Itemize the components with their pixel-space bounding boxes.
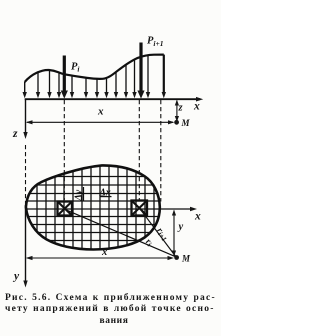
radius line r_i to M [64,209,176,257]
ellipse (foundation outline) [26,165,160,249]
y dimension line at M (plan) [172,210,176,257]
left edge of load diagram [24,82,26,93]
svg-text:y: y [177,222,184,233]
thin load arrow 9 [114,72,118,98]
label delta-y (rotated) [74,187,85,202]
dashed projection: right edge [160,100,162,202]
label r_i+1 (rotated along line) [154,226,171,243]
load curve (distributed pressure envelope) [25,55,164,82]
loaded cell i (crossed square) [58,202,73,216]
caption line 3 [100,316,129,326]
thin load arrow 5 [70,76,74,98]
svg-text:x: x [101,247,107,258]
svg-text:y: y [12,271,20,283]
thin load arrow 1 (left edge) [23,92,27,98]
thin load arrow 6 [84,78,88,98]
bold force arrow P_i+1 [137,43,144,99]
svg-text:ri+1: ri+1 [154,226,171,243]
svg-text:M: M [181,118,191,128]
thin load arrow 12 [146,55,150,98]
svg-text:x: x [97,106,104,118]
thin load arrow 3 [47,70,51,98]
thin load arrow 13 (right edge) [162,92,166,98]
svg-text:Pi+1: Pi+1 [147,35,164,47]
svg-text:z: z [12,128,18,140]
thin load arrow 8 [104,79,108,99]
z-axis (vertical, down from origin) [23,99,27,139]
y-axis of plan [23,205,27,288]
ground line / x-axis of section [25,97,204,102]
dashed projection: under P_i [63,100,65,200]
svg-text:Δy: Δy [74,189,85,201]
thin load arrow 11 [132,60,136,98]
point M (section) [174,120,179,125]
label r_i (rotated along line) [143,236,154,248]
foundation plan grid (clipped to ellipse) [26,164,160,251]
x-axis of plan (through ellipse centre) [26,207,197,212]
thin load arrow 4 [57,73,61,98]
radius line r_i+1 to M [140,208,177,257]
thin load arrow 7 [95,79,99,98]
bold force arrow P_i [61,56,68,99]
caption line 2 [5,304,215,314]
x dimension line (section) [26,120,175,124]
thin load arrow 2 [36,71,40,98]
svg-text:Pi: Pi [71,62,80,74]
svg-text:x: x [193,101,200,113]
right edge of load diagram [163,55,165,93]
svg-text:M: M [181,254,191,264]
svg-text:x: x [194,211,201,223]
dashed projection: left edge [25,145,27,204]
z dimension line at M [175,100,179,122]
caption line 1 [5,293,216,303]
svg-text:z: z [178,103,184,114]
loaded cell i+1 (crossed square) [132,201,148,216]
point M (plan) [174,255,179,260]
thin load arrow 10 [124,65,128,99]
dashed projection: under P_i+1 [138,100,140,200]
x dimension line (plan bottom) [26,256,174,260]
